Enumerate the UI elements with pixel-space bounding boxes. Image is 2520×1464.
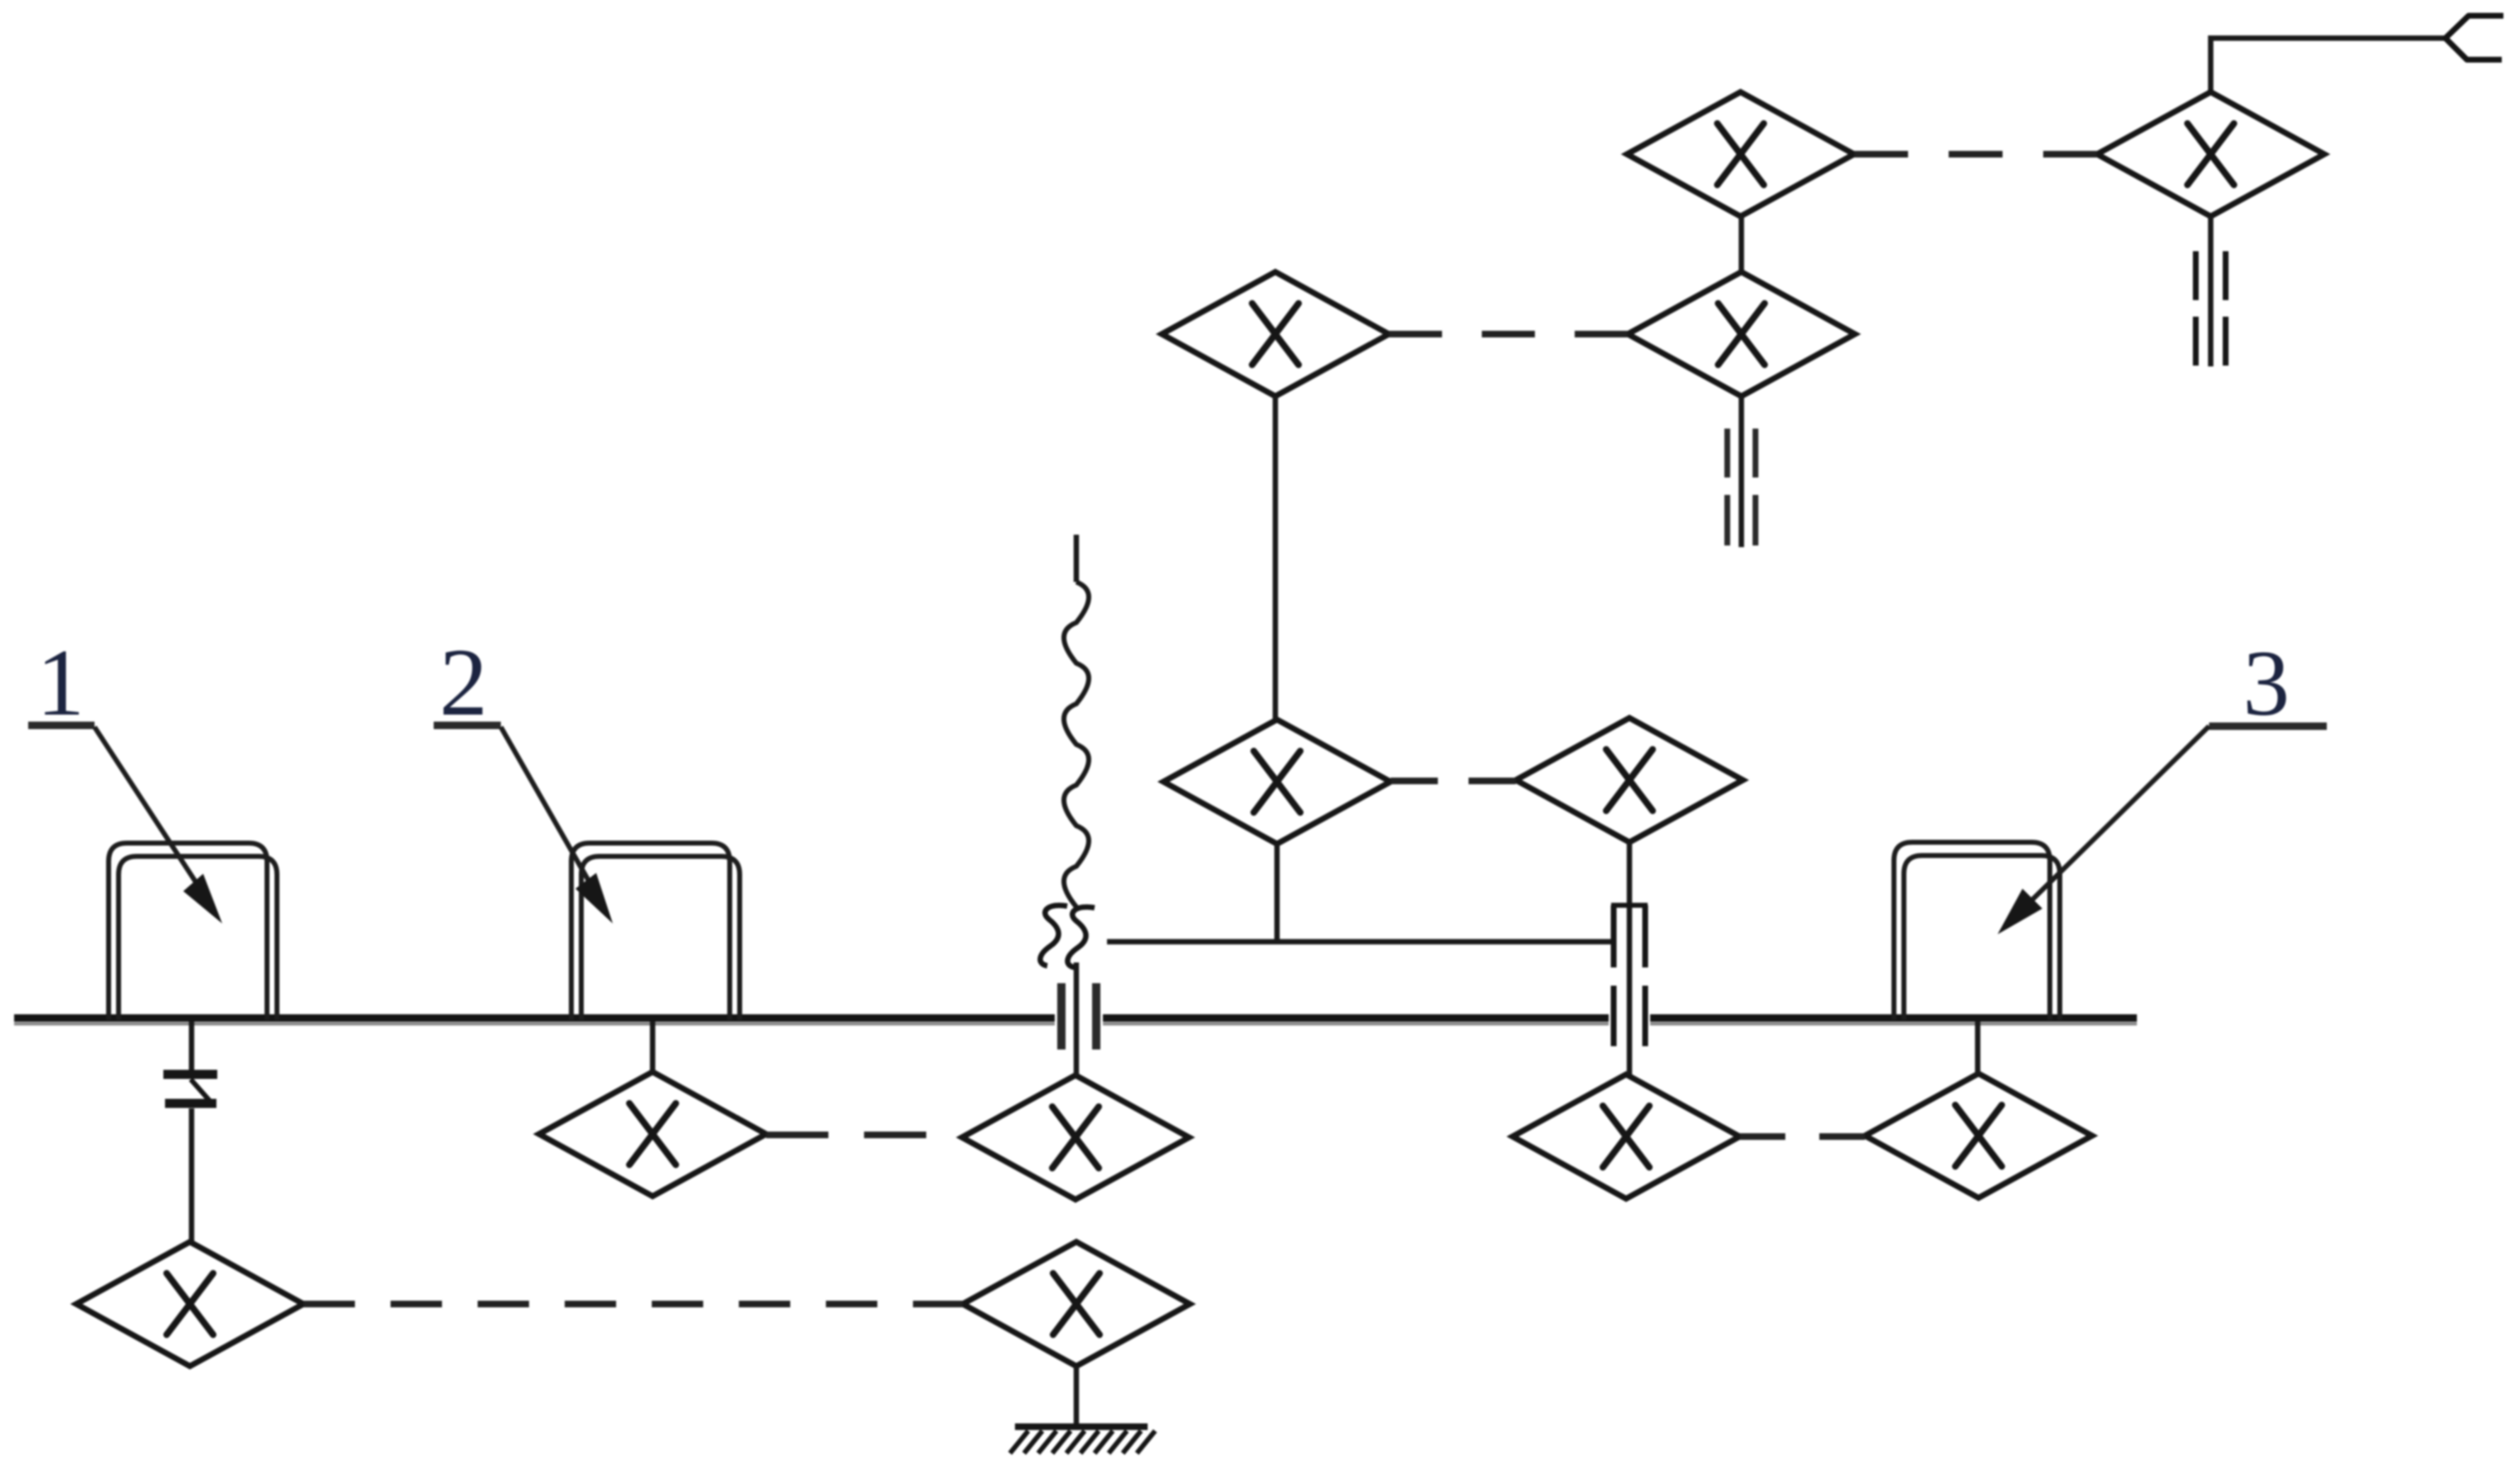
svg-text:1: 1 bbox=[36, 630, 85, 736]
svg-text:3: 3 bbox=[2243, 632, 2290, 735]
svg-text:2: 2 bbox=[439, 629, 488, 736]
